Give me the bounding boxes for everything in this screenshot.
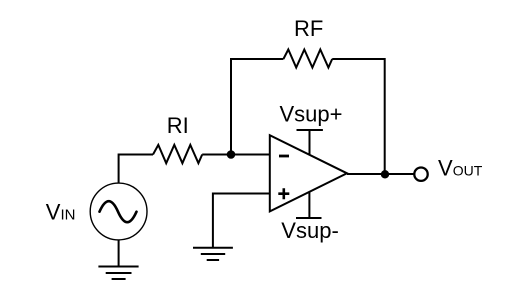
svg-text:Vsup+: Vsup+ xyxy=(280,102,343,127)
svg-text:RI: RI xyxy=(167,113,189,138)
svg-text:RF: RF xyxy=(294,16,323,41)
svg-text:Vsup-: Vsup- xyxy=(281,218,338,243)
